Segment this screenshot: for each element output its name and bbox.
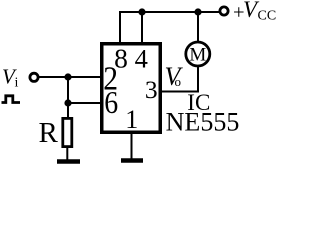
wire node B to pin 6: [68, 102, 100, 104]
label Vo: [165, 62, 184, 91]
junction dot motor/rail: [194, 8, 201, 15]
label Vi: [2, 64, 19, 90]
svg-text:4: 4: [135, 44, 148, 74]
junction dot node B: [64, 99, 71, 106]
ground under pin 1: [121, 158, 143, 163]
resistor R: [63, 118, 72, 146]
svg-text:i: i: [15, 76, 19, 91]
svg-text:CC: CC: [258, 9, 277, 24]
junction dot pin4/rail: [138, 8, 145, 15]
terminal +Vcc: [220, 7, 228, 15]
svg-text:R: R: [39, 117, 59, 149]
wire node A down: [67, 77, 69, 103]
wire motor to pin 3: [162, 67, 198, 92]
svg-text:M: M: [189, 45, 206, 66]
wire pin 8 to +Vcc rail: [120, 12, 142, 43]
wire +Vcc rail: [142, 11, 219, 13]
svg-text:6: 6: [104, 85, 118, 120]
wire resistor to ground: [66, 148, 68, 160]
ground under R: [57, 159, 80, 164]
motor M: [186, 42, 210, 66]
label +Vcc: [233, 0, 276, 24]
svg-text:NE555: NE555: [166, 108, 240, 137]
wire motor top to rail: [197, 12, 199, 42]
svg-text:1: 1: [125, 105, 138, 134]
svg-text:3: 3: [145, 75, 158, 104]
terminal Vi: [30, 73, 38, 81]
pulse symbol: [2, 96, 21, 103]
op IC U1 NE555 box: [102, 44, 161, 133]
wire pin 1 to ground: [131, 134, 133, 159]
wire Vi to pin 2: [39, 76, 100, 78]
wire pin 4 to rail: [141, 12, 143, 43]
svg-text:o: o: [175, 74, 182, 89]
junction dot node A: [64, 73, 71, 80]
wire node B to resistor: [67, 103, 69, 117]
